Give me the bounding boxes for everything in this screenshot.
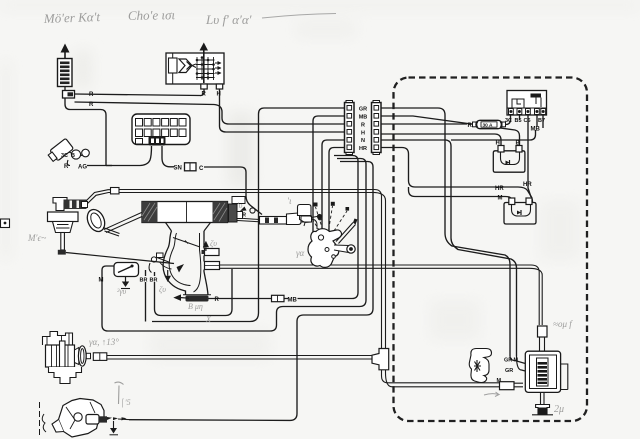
svg-text:HR: HR	[523, 182, 532, 188]
svg-text:B: B	[516, 141, 521, 147]
svg-text:H: H	[361, 131, 365, 137]
svg-text:M: M	[514, 358, 519, 364]
svg-text:C6: C6	[524, 118, 531, 124]
svg-text:30 A: 30 A	[483, 122, 493, 128]
svg-text:HR: HR	[359, 146, 367, 152]
svg-text:Β μη: Β μη	[188, 302, 203, 311]
svg-text:AG: AG	[78, 165, 87, 171]
svg-text:N: N	[361, 138, 365, 144]
svg-text:R: R	[468, 123, 473, 129]
svg-text:′υ: ′υ	[237, 201, 243, 210]
svg-text:R: R	[202, 92, 207, 98]
svg-text:′ι: ′ι	[287, 196, 292, 206]
svg-text:ζυ: ζυ	[159, 285, 166, 294]
svg-text:γα, ↑13°: γα, ↑13°	[89, 337, 119, 347]
svg-text:R: R	[215, 297, 220, 303]
svg-text:⌠′5: ⌠′5	[120, 398, 131, 408]
svg-text:R: R	[64, 164, 69, 170]
svg-text:MB: MB	[531, 127, 541, 133]
svg-text:GR: GR	[505, 368, 513, 374]
svg-text:R: R	[89, 92, 94, 98]
svg-text:B: B	[71, 153, 75, 159]
svg-text:²γυ: ²γυ	[117, 287, 127, 296]
svg-text:GR: GR	[504, 358, 512, 364]
svg-text:BR: BR	[150, 278, 158, 284]
svg-text:M: M	[498, 196, 503, 202]
svg-text:GR: GR	[359, 107, 367, 113]
svg-text:R: R	[89, 102, 94, 108]
svg-text:HR: HR	[495, 186, 504, 192]
svg-text:H: H	[217, 92, 221, 98]
svg-text:MB: MB	[288, 298, 298, 304]
svg-text:C: C	[199, 166, 204, 172]
svg-text:Lυ f′ α′α′: Lυ f′ α′α′	[205, 12, 252, 27]
svg-text:≈ομ f: ≈ομ f	[553, 319, 573, 329]
svg-text:3C: 3C	[505, 118, 512, 124]
svg-text:γα: γα	[296, 248, 305, 258]
svg-text:SN: SN	[174, 166, 182, 172]
svg-text:H: H	[496, 141, 500, 147]
svg-text:Chο′e ισι: Chο′e ισι	[128, 7, 176, 23]
svg-text:Mö′er Kα′t: Mö′er Kα′t	[43, 9, 101, 26]
svg-text:MB: MB	[359, 115, 368, 121]
svg-text:ζυ: ζυ	[210, 239, 217, 248]
svg-text:M′є~: M′є~	[27, 233, 46, 243]
svg-text:B5: B5	[515, 118, 522, 124]
svg-text:B7: B7	[538, 118, 545, 124]
svg-text:R: R	[361, 123, 365, 129]
svg-text:2μ: 2μ	[554, 404, 564, 415]
svg-text:BR: BR	[140, 278, 148, 284]
svg-text:3C: 3C	[61, 153, 68, 159]
svg-text:M: M	[99, 278, 104, 284]
